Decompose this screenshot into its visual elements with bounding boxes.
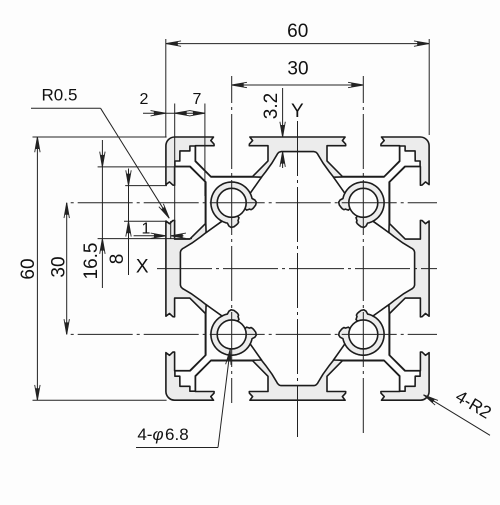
svg-text:8: 8 bbox=[107, 254, 128, 265]
svg-text:X: X bbox=[136, 257, 149, 278]
svg-text:60: 60 bbox=[18, 258, 39, 279]
svg-text:4-φ6.8: 4-φ6.8 bbox=[137, 425, 188, 444]
svg-text:1: 1 bbox=[142, 221, 151, 238]
svg-text:3.2: 3.2 bbox=[261, 93, 282, 119]
svg-text:7: 7 bbox=[193, 91, 202, 108]
svg-text:Y: Y bbox=[291, 101, 304, 122]
svg-text:30: 30 bbox=[49, 256, 70, 277]
svg-text:60: 60 bbox=[287, 21, 308, 42]
svg-text:R0.5: R0.5 bbox=[42, 86, 78, 105]
svg-text:30: 30 bbox=[287, 59, 308, 80]
svg-text:16.5: 16.5 bbox=[81, 243, 102, 280]
svg-text:2: 2 bbox=[140, 91, 149, 108]
